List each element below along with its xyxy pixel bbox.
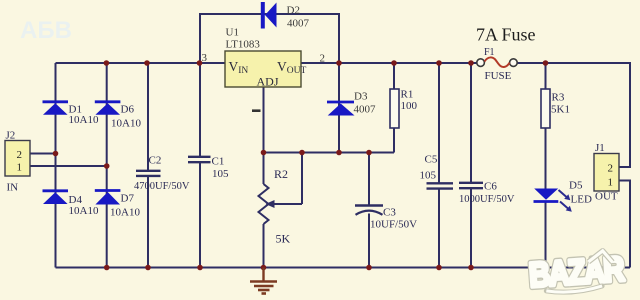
svg-text:1000UF/50V: 1000UF/50V xyxy=(459,194,515,205)
wire C3 upper lead xyxy=(368,153,370,206)
node VOUT C5 xyxy=(436,60,442,66)
svg-text:R1: R1 xyxy=(401,89,414,101)
wire C1 lower lead xyxy=(199,163,201,268)
connector J2 xyxy=(5,130,30,194)
node rail R3 xyxy=(543,60,549,66)
wire bottom rail xyxy=(56,267,631,269)
svg-text:OUT: OUT xyxy=(595,191,618,203)
wire C3 lower lead xyxy=(368,214,370,268)
wire rail after fuse xyxy=(517,62,632,64)
fuse F1 xyxy=(477,47,517,82)
svg-text:U1: U1 xyxy=(226,27,239,39)
wire right drop D2 to D3 xyxy=(338,13,340,153)
wire R2 wiper horizontal xyxy=(272,203,302,205)
svg-text:C2: C2 xyxy=(149,155,162,167)
op-amp U1 regulator LT1083 xyxy=(225,27,306,89)
node ADJ D3 xyxy=(336,150,342,156)
svg-text:1: 1 xyxy=(608,177,614,189)
node ADJ C3 xyxy=(366,150,372,156)
svg-text:F1: F1 xyxy=(484,47,495,58)
svg-text:R2: R2 xyxy=(274,167,288,181)
pin 1 label (rotated) xyxy=(252,109,261,112)
svg-text:J1: J1 xyxy=(595,142,605,154)
svg-text:2: 2 xyxy=(608,163,614,175)
diode D4 xyxy=(43,191,99,217)
svg-text:АБВ: АБВ xyxy=(20,17,72,44)
node bottom C3 xyxy=(366,265,372,271)
svg-text:J2: J2 xyxy=(6,130,16,142)
connector J1 xyxy=(594,142,619,203)
capacitor C1 xyxy=(188,156,229,181)
svg-text:C6: C6 xyxy=(484,181,497,193)
diode D1 xyxy=(43,102,99,126)
wire C2 lower lead xyxy=(147,177,149,268)
watermark BAZAR xyxy=(528,249,626,295)
node J2 pin1 xyxy=(104,163,110,169)
wire left drop from D2 wire xyxy=(199,13,201,156)
wire bridge right leg xyxy=(106,63,108,268)
svg-text:4007: 4007 xyxy=(354,104,377,116)
node VOUT C6 xyxy=(468,60,474,66)
svg-text:D3: D3 xyxy=(354,91,368,103)
svg-text:BAZAR: BAZAR xyxy=(528,249,626,295)
node bottom C1 xyxy=(197,265,203,271)
svg-text:2: 2 xyxy=(17,149,23,161)
svg-text:C1: C1 xyxy=(212,156,225,168)
wire right vertical to J1 pin2 xyxy=(619,63,630,167)
svg-text:2: 2 xyxy=(320,53,326,65)
wire top D2 link xyxy=(200,13,339,15)
node bottom C2 xyxy=(145,265,151,271)
node bottom ground xyxy=(261,265,267,271)
node bottom C6 xyxy=(468,265,474,271)
node VIN xyxy=(197,60,203,66)
wire input top rail xyxy=(56,62,226,64)
svg-text:7A Fuse: 7A Fuse xyxy=(476,25,536,45)
svg-text:4700UF/50V: 4700UF/50V xyxy=(134,181,190,192)
capacitor C5 xyxy=(420,154,454,189)
wire LED to ground rail xyxy=(545,202,547,268)
diode D6 xyxy=(95,102,142,130)
wire C6 lower lead xyxy=(470,189,472,268)
node VOUT D2/D3 xyxy=(336,60,342,66)
potentiometer R2 xyxy=(259,167,291,246)
node VOUT R1 xyxy=(391,60,397,66)
wire C5 lower lead xyxy=(438,189,440,268)
node bridge top C2 xyxy=(144,60,150,66)
node bottom C5 xyxy=(436,265,442,271)
node bridge top D6 xyxy=(104,60,110,66)
node ADJ R2 xyxy=(261,150,267,156)
wire C5 upper lead xyxy=(438,63,440,183)
svg-text:10A10: 10A10 xyxy=(110,207,140,219)
svg-text:C3: C3 xyxy=(383,207,396,219)
svg-text:D5: D5 xyxy=(569,180,583,192)
svg-text:10A10: 10A10 xyxy=(69,114,99,126)
node bottom D5 xyxy=(543,265,549,271)
diode D3 xyxy=(327,91,376,116)
diode D2 xyxy=(263,2,310,30)
capacitor C3 xyxy=(355,206,417,231)
wire J1 pin1 to bottom rail xyxy=(619,181,630,268)
wire R1 top lead xyxy=(393,63,395,89)
wire J2 pin1 stub xyxy=(30,165,107,167)
node bottom D7 xyxy=(104,265,110,271)
wire bridge left leg xyxy=(55,63,57,268)
capacitor C2 xyxy=(134,155,190,193)
wire ADJ rail xyxy=(264,152,395,154)
wire R3 top lead xyxy=(545,63,547,89)
svg-text:100: 100 xyxy=(401,100,418,112)
svg-text:10UF/50V: 10UF/50V xyxy=(370,219,417,231)
svg-text:D7: D7 xyxy=(121,193,135,205)
node ADJ wiper xyxy=(299,150,305,156)
svg-text:10A10: 10A10 xyxy=(111,118,141,130)
wire R3 to LED xyxy=(545,128,547,189)
wire C2 upper lead xyxy=(147,63,149,170)
svg-text:IN: IN xyxy=(7,182,19,194)
capacitor C6 xyxy=(459,181,515,206)
wire R1 bottom lead xyxy=(393,128,395,153)
diode D7 xyxy=(95,191,141,219)
resistor R1 xyxy=(390,89,418,129)
svg-text:LED: LED xyxy=(571,194,592,206)
LED D5 xyxy=(534,180,592,212)
svg-text:1: 1 xyxy=(17,162,23,174)
svg-text:D2: D2 xyxy=(287,5,300,17)
wire R2 wiper vertical xyxy=(301,153,303,205)
svg-text:105: 105 xyxy=(212,168,229,180)
svg-text:R3: R3 xyxy=(552,92,565,104)
ground xyxy=(250,268,277,294)
wire ADJ pin drop xyxy=(263,87,265,153)
svg-text:4007: 4007 xyxy=(287,18,310,30)
svg-text:C5: C5 xyxy=(425,154,438,166)
node J2 pin2 xyxy=(53,151,59,157)
wire U1 output rail xyxy=(301,62,478,64)
svg-text:FUSE: FUSE xyxy=(485,70,512,82)
svg-text:105: 105 xyxy=(420,170,437,182)
wire C6 upper lead xyxy=(470,63,472,183)
svg-text:5K1: 5K1 xyxy=(551,104,570,116)
svg-text:10A10: 10A10 xyxy=(69,205,99,217)
wire R2 top lead xyxy=(263,153,265,185)
wire J2 pin2 stub xyxy=(30,153,56,155)
svg-text:LT1083: LT1083 xyxy=(226,39,261,51)
wire R2 bottom lead xyxy=(263,224,265,268)
svg-text:3: 3 xyxy=(202,52,208,64)
svg-text:ADJ: ADJ xyxy=(257,75,279,89)
svg-text:D6: D6 xyxy=(121,104,135,116)
svg-text:5K: 5K xyxy=(276,232,291,246)
resistor R3 xyxy=(541,89,570,128)
